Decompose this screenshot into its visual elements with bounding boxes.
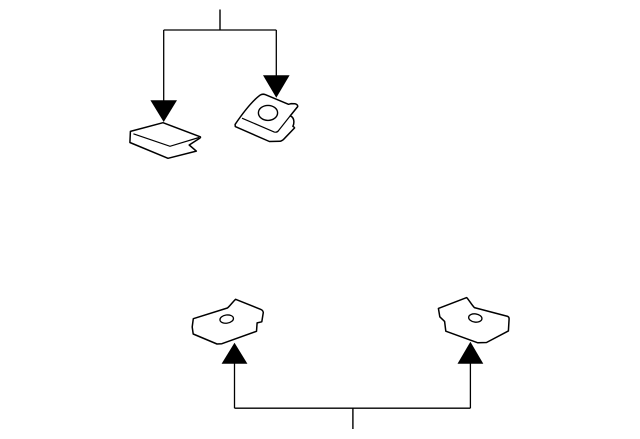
part: plate nut (bottom-left), hole — [219, 314, 234, 324]
part: square nut clip, hole — [258, 105, 277, 120]
part: plate nut (bottom-left), outer outline — [192, 299, 263, 344]
arrow: to square nut clip (down) — [263, 75, 290, 98]
wire: top horizontal leader — [164, 29, 277, 31]
part: square nut clip, fold edge (inner) — [242, 107, 297, 132]
arrow: to folded clip (down) — [150, 100, 177, 122]
wire: bottom-left vertical leader — [234, 363, 236, 408]
wire: bottom-right vertical leader — [469, 363, 471, 408]
arrow: to bottom-right plate nut (up) — [458, 342, 484, 364]
wire: top-left vertical leader — [163, 30, 165, 101]
arrow: to bottom-left plate nut (up) — [222, 343, 248, 364]
part: folded plate clip (top-left), outer outline — [130, 123, 201, 159]
part: plate nut (bottom-right), outer outline — [438, 298, 509, 343]
wire: bottom horizontal leader — [235, 407, 471, 409]
wire: top center stem — [219, 10, 221, 31]
wire: bottom center stem — [352, 408, 354, 429]
part: folded plate clip, fold crease lines — [133, 134, 199, 147]
part: plate nut (bottom-right), hole — [468, 313, 482, 323]
wire: top-right vertical leader — [275, 30, 277, 76]
part: square nut clip (top-right), outer outline — [235, 94, 298, 141]
